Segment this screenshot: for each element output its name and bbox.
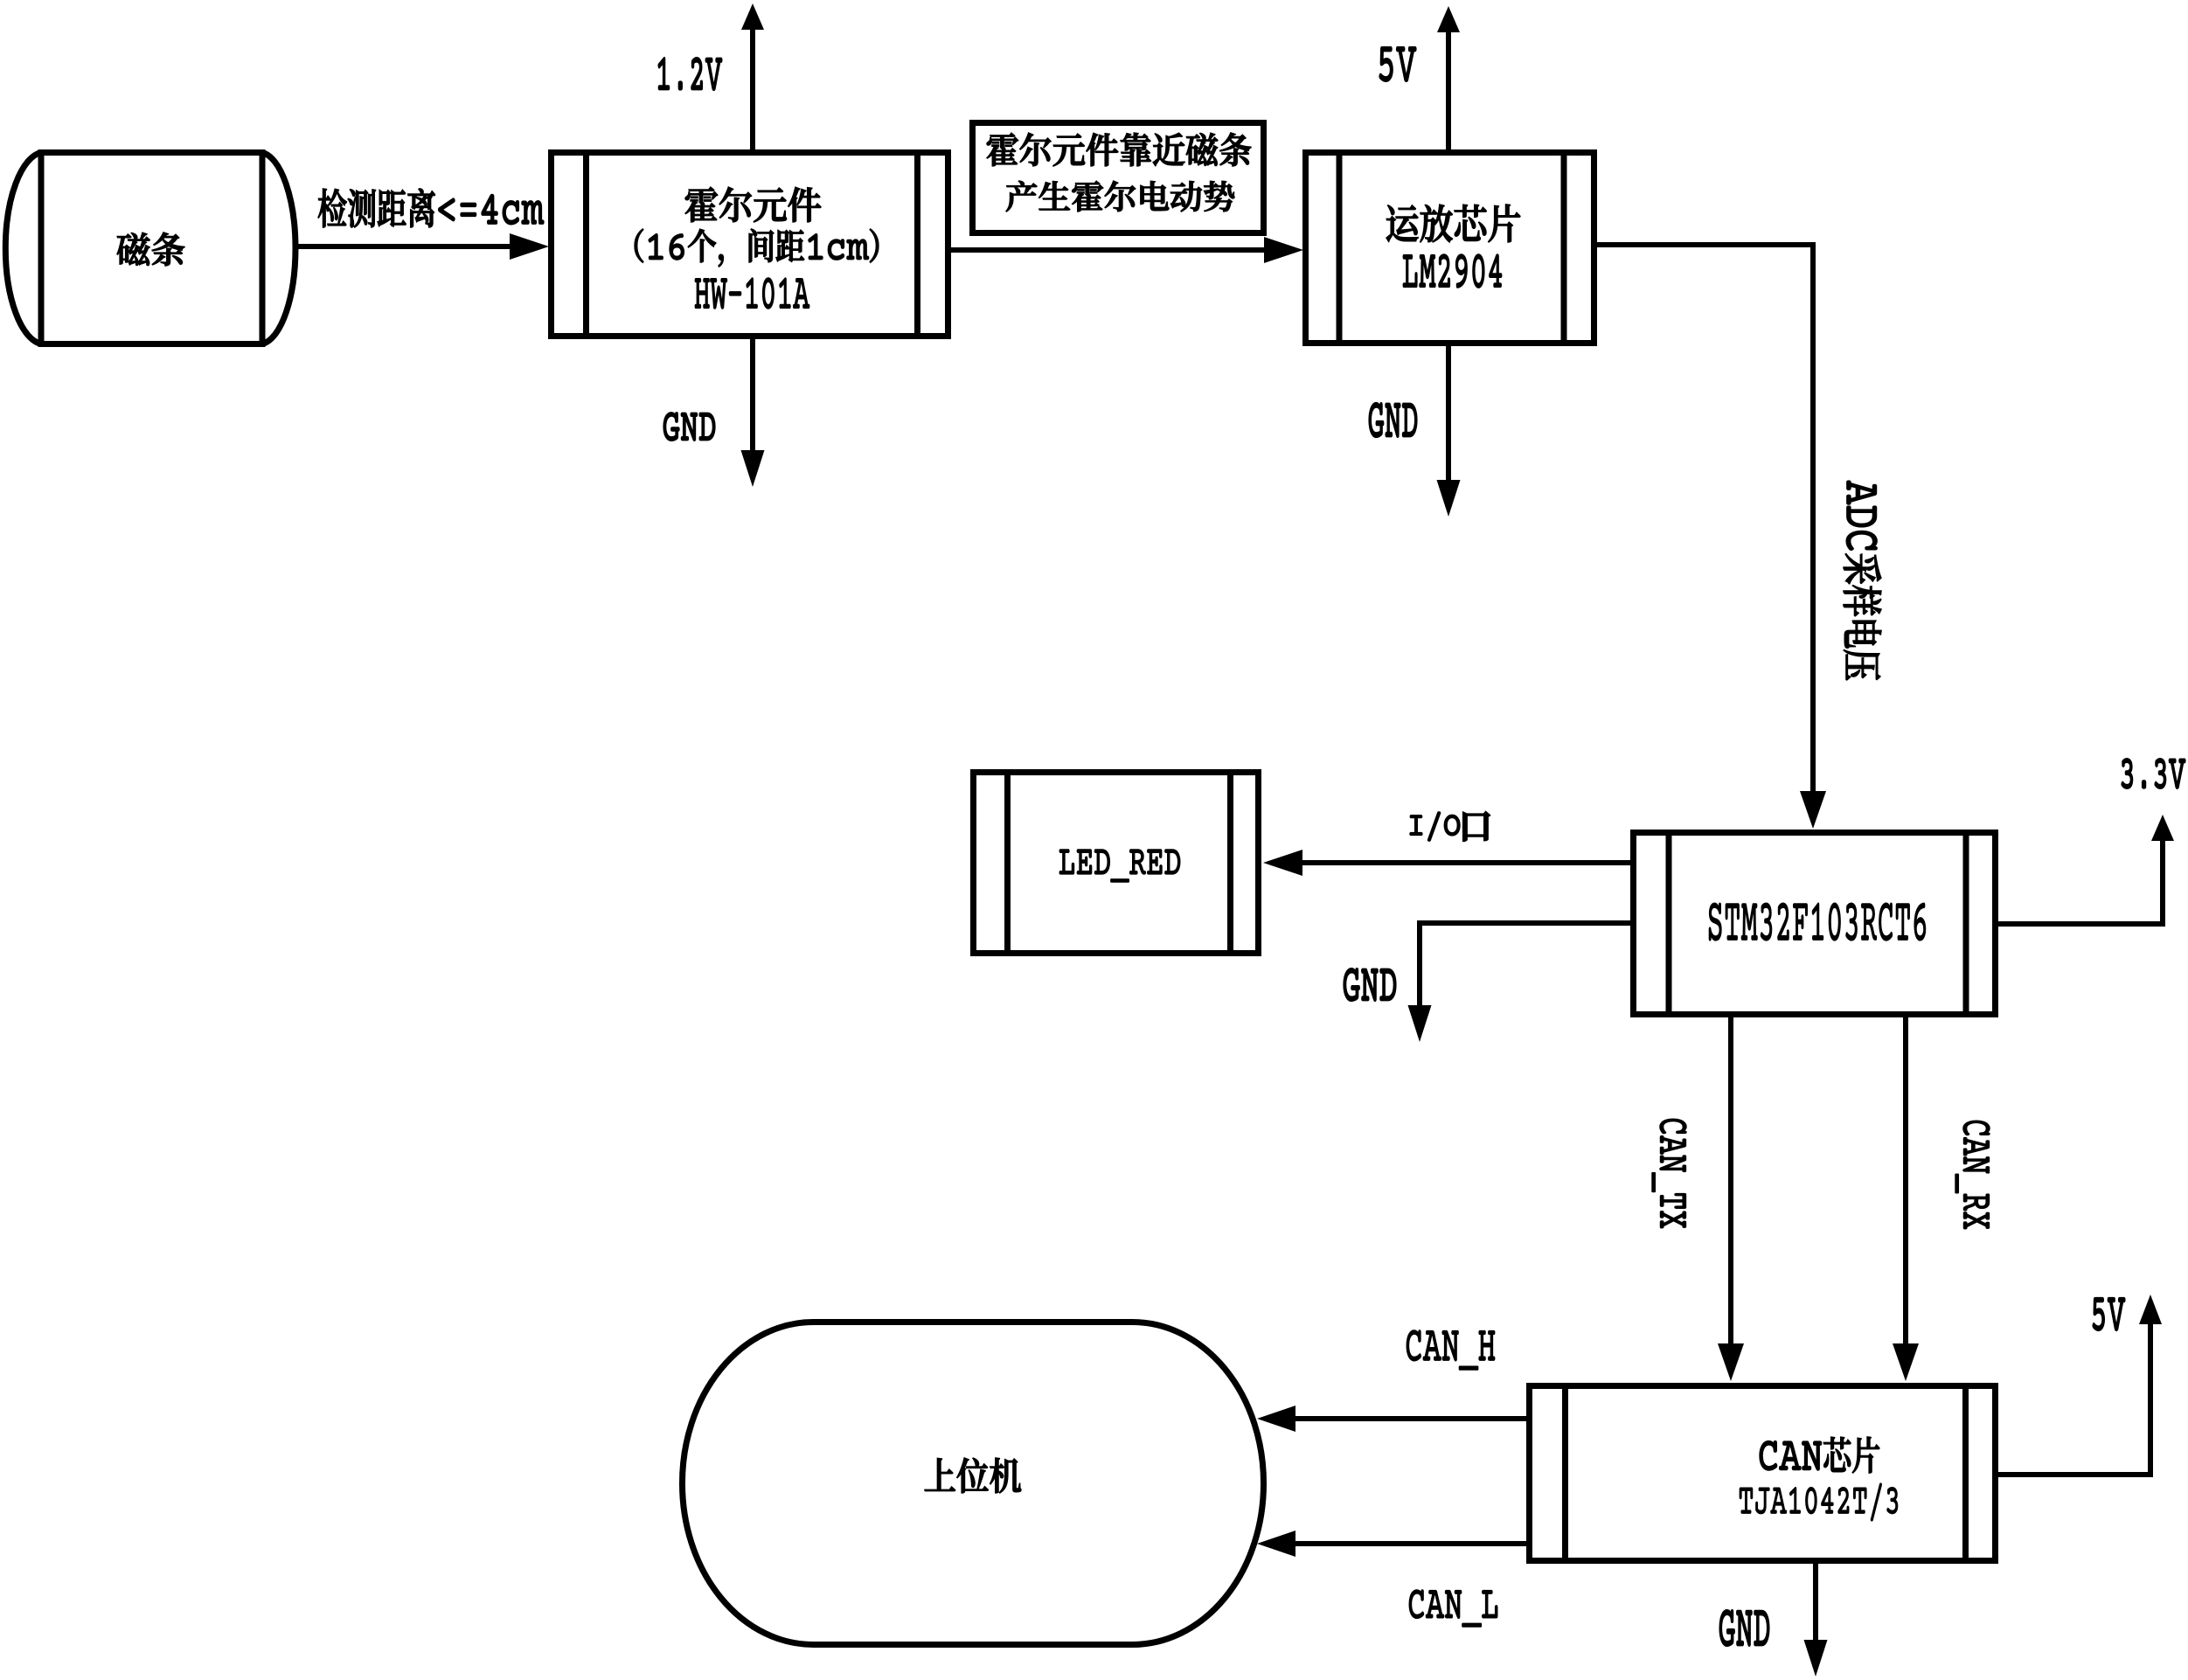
ground: GND arrow of CAN chip [1813, 1564, 1818, 1642]
label: 运放芯片 [1386, 205, 1520, 242]
label: （16个，间距1cm） [635, 229, 879, 267]
label: 5V can [2093, 1298, 2125, 1330]
label: GND opamp [1369, 403, 1417, 437]
label: I/O口 [1410, 812, 1460, 841]
label: 产生霍尔电动势 [1006, 181, 1234, 212]
block: annotation box 霍尔元件靠近磁条产生霍尔电动势 [973, 123, 1264, 233]
wire: CAN_L CAN芯片→上位机 [1293, 1541, 1526, 1546]
label: TJA1042T/3 [1740, 1483, 1898, 1521]
label: GND stm32 [1344, 968, 1396, 1001]
wire: detection arrow 磁条→霍尔元件 [298, 244, 513, 249]
label: 霍尔元件 [685, 187, 821, 222]
wire: ADC sampling 运放芯片→STM32 [1597, 245, 1813, 794]
label: 3.3V [2122, 759, 2185, 788]
label: HW-101A [695, 278, 809, 309]
ground: GND arrow of hall element [750, 339, 755, 453]
power: 5V arrow of op-amp [1446, 29, 1451, 149]
block: MCU STM32F103RCT6 [1634, 833, 1996, 1015]
label: 上位机 [925, 1458, 1021, 1493]
ground: GND arrow of STM32 [1420, 923, 1630, 1008]
wire: CAN_H CAN芯片→上位机 [1293, 1416, 1526, 1421]
label: 5V opamp [1379, 47, 1416, 81]
label: 磁条 text [117, 233, 184, 266]
label: LM2904 [1403, 254, 1502, 288]
label: CAN_L [1409, 1590, 1497, 1627]
label: GND hall [663, 413, 715, 441]
label: CAN_TX (rotated) [1652, 1119, 1686, 1228]
label: GND can [1719, 1610, 1769, 1646]
wire: CAN_TX STM32→CAN芯片 [1728, 1017, 1733, 1346]
label: 霍尔元件靠近磁条 [987, 133, 1251, 166]
label: CAN_H [1407, 1330, 1495, 1370]
block: magnetic strip 磁条 cylinder shape [5, 153, 295, 344]
block: host computer 上位机 rounded shape [683, 1322, 1264, 1645]
block: op-amp chip 运放芯片 LM2904 [1306, 153, 1594, 344]
label: ADC采样电压 (rotated) [1844, 481, 1881, 680]
wire: I/O口 STM32→LED_RED [1300, 860, 1630, 865]
wire: CAN_RX STM32→CAN芯片 [1903, 1017, 1908, 1346]
label: CAN_RX (rotated) [1955, 1121, 1990, 1229]
block: LED_RED indicator [974, 773, 1259, 954]
block: CAN transceiver CAN芯片 TJA1042T/3 [1530, 1386, 1996, 1561]
wire: 霍尔元件→运放芯片 [951, 247, 1267, 253]
label: LED_RED [1059, 850, 1180, 882]
block: hall element 霍尔元件 HW-101A [552, 153, 948, 337]
label: 检测距离<=4cm [318, 189, 544, 227]
power: 3.3V arrow of STM32 [1998, 838, 2163, 924]
label: STM32F103RCT6 [1709, 903, 1926, 941]
label: 1.2V [658, 58, 722, 90]
power: 1.2V arrow of hall element [750, 26, 755, 149]
label: CAN芯片 [1760, 1437, 1879, 1473]
ground: GND arrow of op-amp [1446, 346, 1451, 482]
power: 5V arrow of CAN chip [1998, 1322, 2150, 1475]
